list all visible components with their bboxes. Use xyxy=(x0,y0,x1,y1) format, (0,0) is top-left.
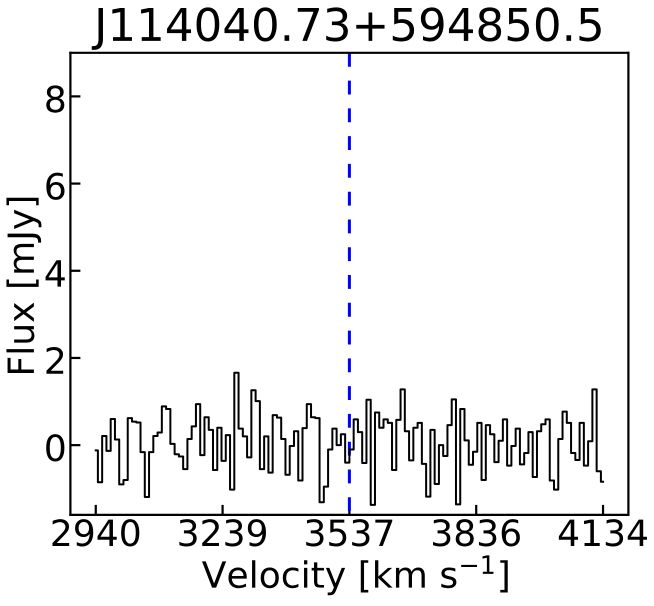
x tick 3836 xyxy=(433,505,520,547)
title J114040.73+594850.5 xyxy=(92,7,601,50)
J114040.73+594850.5 xyxy=(92,7,601,50)
y tick 0 xyxy=(46,434,80,461)
y tick 6 xyxy=(46,173,80,200)
2940 xyxy=(52,519,139,546)
bottom spine xyxy=(70,52,628,54)
4134 xyxy=(559,519,647,546)
3836 xyxy=(433,519,520,546)
blue dashed vertical line at 3537 km/s xyxy=(348,53,350,515)
x axis xyxy=(52,505,647,595)
spectrum step trace xyxy=(96,373,603,505)
y tick label 6 xyxy=(46,173,64,200)
x tick label 3537 xyxy=(306,519,392,546)
2 xyxy=(46,347,63,374)
8 xyxy=(46,85,64,112)
y tick label 0 xyxy=(46,434,64,461)
0 xyxy=(46,434,64,461)
6 xyxy=(46,173,64,200)
x tick label 3239 xyxy=(179,519,266,546)
Velocity [km s$^{-1}$] xyxy=(202,555,508,595)
x tick 2940 xyxy=(52,505,139,547)
x axis label Velocity [km s^-1] xyxy=(202,555,508,595)
x tick 4134 xyxy=(559,505,647,547)
y tick label 8 xyxy=(46,85,64,112)
4 xyxy=(46,260,65,286)
y axis xyxy=(6,85,80,461)
right spine xyxy=(627,53,629,515)
3239 xyxy=(179,519,266,546)
x tick 3239 xyxy=(179,505,266,547)
x tick label 3836 xyxy=(433,519,520,546)
y tick 4 xyxy=(46,260,81,286)
x tick label 4134 xyxy=(559,519,647,546)
x tick label 2940 xyxy=(52,519,139,546)
y axis label Flux [mJy] xyxy=(6,198,41,373)
y tick 2 xyxy=(46,347,80,374)
Flux [mJy] xyxy=(6,198,41,373)
top spine xyxy=(70,514,628,516)
3537 xyxy=(306,519,392,546)
y tick label 2 xyxy=(46,347,63,374)
y tick label 4 xyxy=(46,260,65,286)
y tick 8 xyxy=(46,85,80,112)
x tick 3537 xyxy=(306,505,392,547)
left spine xyxy=(69,53,71,515)
plot area background xyxy=(70,53,628,515)
